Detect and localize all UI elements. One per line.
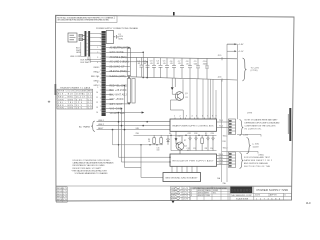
capacitor bank rails (sloped per scan skew) [106,57,237,80]
svg-text:LINE 2: LINE 2 [98,124,105,126]
svg-text:.05: .05 [163,63,167,65]
svg-text:TB2-4: TB2-4 [219,154,223,156]
svg-text:115VAC: 115VAC [76,93,86,96]
svg-text:LINE 1: LINE 1 [98,120,105,122]
AC plug P1 [68,33,85,42]
svg-text:60Hz: 60Hz [119,39,124,41]
svg-text:R10: R10 [223,141,226,143]
svg-text:NEUT: NEUT [98,128,104,130]
svg-text:C13: C13 [193,148,196,150]
signal label rows right of connector [110,46,129,114]
svg-text:14-16V: 14-16V [253,146,260,148]
svg-text:6-73: 6-73 [63,194,68,196]
svg-text:VOLTAGES MEASURED TO CHASSIS: VOLTAGES MEASURED TO CHASSIS [75,172,109,175]
svg-text:BLK - BLK: BLK - BLK [58,94,74,96]
svg-text:BRN - BRN: BRN - BRN [58,105,74,107]
brace to +15V label [242,58,246,81]
svg-text:3: 3 [97,57,98,59]
svg-text:VOLTAGE: VOLTAGE [76,90,87,93]
svg-text:J2-6: J2-6 [218,76,223,78]
svg-text:8: 8 [212,116,213,118]
right mid wires with labels [222,135,261,154]
svg-text:8: 8 [97,82,98,84]
svg-text:12.6: 12.6 [76,102,83,104]
svg-text:100: 100 [157,150,160,152]
terminal strip box (box3) [163,173,201,182]
svg-text:DEPENDING UPON LINE VOLTAGE AN: DEPENDING UPON LINE VOLTAGE AND [245,121,281,124]
svg-text:COMPONENTS IN THE CIRCUITS: COMPONENTS IN THE CIRCUITS [245,125,277,127]
company logo block [230,187,252,197]
diode CR7 on Q2 base [175,138,178,141]
svg-text:DRN: DRN [171,188,176,190]
svg-text:CR7: CR7 [178,136,181,138]
svg-text:RED-YEL: RED-YEL [91,76,101,78]
pin numbers above box1 [174,116,217,118]
fold mark left border [55,84,57,95]
svg-text:4-6-73: 4-6-73 [183,191,188,193]
svg-text:RED - RED: RED - RED [58,97,74,99]
svg-text:WIRE COLOR: WIRE COLOR [58,91,75,93]
svg-text:4-9-73: 4-9-73 [183,199,188,201]
svg-text:.05: .05 [178,63,182,65]
resistor R2 [153,135,156,144]
svg-text:(TYP): (TYP) [247,112,253,114]
svg-text:7: 7 [97,77,98,79]
sheet border frame [56,15,295,201]
svg-text:(GND): (GND) [259,154,265,156]
svg-text:ORN - ORN: ORN - ORN [58,108,74,110]
title block top line [56,185,292,187]
diodes row under box1 [189,135,215,150]
svg-text:SCALE NONE: SCALE NONE [236,197,249,200]
svg-text:J2-5: J2-5 [218,55,223,57]
svg-text:AC TRANS: AC TRANS [79,125,91,128]
wire 25B below box1 [113,130,217,151]
svg-text:TB2-3: TB2-3 [223,147,228,149]
diode CR6 [167,135,170,145]
svg-text:1: 1 [174,116,175,118]
svg-text:25B: 25B [136,133,140,135]
svg-text:CR2: CR2 [188,133,191,135]
registration mark left margin [48,101,50,103]
svg-text:6: 6 [202,116,203,118]
ticks box2 to box3 [172,166,197,172]
svg-text:IN QUESTION.: IN QUESTION. [245,128,262,130]
svg-text:0.3: 0.3 [88,108,92,110]
svg-text:POWER SUPPLY 7296: POWER SUPPLY 7296 [257,188,289,192]
capacitors C1-C10 between rails [137,57,210,79]
svg-text:STL: STL [213,193,216,195]
arrows +5V stubs [234,43,236,52]
svg-text:DATA SEE SHEET 2 OF 2: DATA SEE SHEET 2 OF 2 [244,159,273,162]
svg-text:25.2VAC CT: 25.2VAC CT [110,65,126,68]
svg-text:25A: 25A [223,182,227,185]
svg-text:TB2-7: TB2-7 [219,163,223,165]
svg-text:NEG GROUND JUNCTION ASSY: NEG GROUND JUNCTION ASSY [166,176,199,179]
vertical bus wires from connector area [119,52,171,177]
svg-text:1: 1 [97,47,98,49]
svg-text:409612: 409612 [198,195,204,197]
svg-text:R7: R7 [184,140,186,142]
svg-text:(+ 15V): (+ 15V) [253,144,260,146]
parts list table [190,187,230,201]
svg-text:25.2VAC (RED): 25.2VAC (RED) [110,70,127,73]
wires plug to transformer [79,36,85,57]
brace and note 1 [240,120,244,136]
svg-text:FOR VOLTAGE AND TEST: FOR VOLTAGE AND TEST [244,156,271,159]
svg-text:25.2 CT: 25.2 CT [76,97,86,99]
svg-text:11: 11 [96,97,98,99]
svg-text:UNLESS OTHERWISE SPECIFIED:: UNLESS OTHERWISE SPECIFIED: [73,160,111,162]
title text [230,187,291,201]
svg-text:1: 1 [114,17,116,20]
svg-text:1273686: 1273686 [256,199,283,201]
svg-text:REAR POWER SUPPLY CONTROL BOX: REAR POWER SUPPLY CONTROL BOX [173,124,215,127]
svg-text:1K: 1K [148,141,151,143]
svg-text:4-5-73: 4-5-73 [183,188,188,190]
bleeder resistor chain R2/R3 left of cap bank [127,48,135,104]
long verticals to title area [222,120,228,182]
notes block bottom-left [71,160,114,175]
svg-text:APP BY: APP BY [270,194,278,197]
svg-text:4-73: 4-73 [63,188,68,190]
svg-text:TB2-1: TB2-1 [223,136,228,138]
svg-text:5-73: 5-73 [63,191,68,193]
connector strip J1 [96,31,106,116]
svg-text:POWER SUPPLY CONNECTIONS ON BA: POWER SUPPLY CONNECTIONS ON BASE [96,27,139,30]
svg-text:LINE CORD: LINE CORD [70,56,81,58]
svg-text:3: 3 [191,195,192,197]
pin number ticks left of strip [100,34,102,110]
svg-text:Q1: Q1 [185,93,189,95]
svg-text:TB2-6: TB2-6 [219,160,223,162]
svg-text:4: 4 [192,116,193,118]
svg-text:RESISTORS ARE 1/2 WATT: RESISTORS ARE 1/2 WATT [73,167,103,170]
svg-text:+5.1V: +5.1V [238,51,244,53]
svg-text:.05: .05 [187,150,189,152]
fold mark bottom [172,201,175,204]
svg-text:CHK: CHK [171,191,176,193]
wires from connector rows [106,48,147,113]
svg-text:TRANSFORMER T1 DATA: TRANSFORMER T1 DATA [60,86,91,89]
svg-text:CR4: CR4 [211,133,214,135]
resistor R3 [160,135,163,144]
svg-text:R1: R1 [186,97,188,99]
transformer T1 windings [85,31,91,57]
regulator box (box2) [170,154,217,166]
svg-text:3: 3 [186,116,187,118]
svg-text:GRN - GRN: GRN - GRN [58,99,74,101]
revision table bottom-left [56,187,67,202]
svg-text:CR3: CR3 [194,133,197,135]
svg-text:.05: .05 [137,63,141,65]
svg-text:.05: .05 [150,63,154,65]
fold mark top [173,12,175,15]
svg-text:4-8-73: 4-8-73 [183,193,188,195]
svg-text:AC LINE 2 (BLK): AC LINE 2 (BLK) [110,61,129,64]
diode CR1 on Q1 base line [171,87,174,90]
svg-text:18 V: 18 V [76,108,83,110]
svg-text:(7-73V): (7-73V) [251,70,258,72]
svg-text:10: 10 [96,92,98,94]
svg-text:+5.8V: +5.8V [238,44,244,46]
junction dots on rows [118,47,148,114]
notes box top-left [56,16,117,23]
signature table [171,187,191,201]
svg-text:24A: 24A [217,177,221,180]
svg-text:5: 5 [97,67,98,69]
brace +15V mid [247,138,251,154]
svg-text:2: 2 [180,116,181,118]
svg-text:a-c: a-c [306,201,311,205]
svg-text:(+5V): (+5V) [244,134,249,136]
svg-text:GROUND WITH A VTVM UNLESS OTHE: GROUND WITH A VTVM UNLESS OTHERWISE SPEC… [57,19,109,22]
verticals from cap bank down to control box [190,79,222,152]
svg-text:13: 13 [96,107,98,109]
transistor Q2 [176,131,184,154]
svg-text:SEEBURG: SEEBURG [231,188,251,192]
svg-text:C14: C14 [210,148,213,150]
svg-text:T1-1: T1-1 [219,120,223,122]
svg-text:6: 6 [97,72,98,74]
svg-text:CAPACITANCE VALUES ARE IN MICR: CAPACITANCE VALUES ARE IN MICROFARADS [73,162,115,165]
svg-text:TB2-5: TB2-5 [219,157,223,159]
wires transformer to connector [88,34,101,62]
svg-text:YEL - YEL: YEL - YEL [58,102,74,104]
svg-text:35 V: 35 V [76,105,83,107]
svg-text:.05: .05 [186,63,190,65]
svg-text:AC NEUTRAL(WHT): AC NEUTRAL(WHT) [110,46,129,49]
svg-text:R5: R5 [205,133,207,135]
svg-text:12: 12 [96,102,98,104]
svg-text:6.3V: 6.3V [76,99,83,101]
svg-text:SECTION 7296 OF THE: SECTION 7296 OF THE [244,166,271,168]
box1 right stubs to terminal strip [217,119,236,135]
fold mark right border [289,108,291,141]
svg-text:500: 500 [194,63,198,65]
svg-text:BLK WHT-2: BLK WHT-2 [81,62,92,64]
control box (box1) [170,118,217,132]
svg-text:BLU-WHT ADJ: BLU-WHT ADJ [110,94,127,97]
svg-text:T1-2: T1-2 [219,126,223,128]
svg-text:14: 14 [96,112,98,114]
transistor Q1 [175,92,184,101]
svg-text:2000: 2000 [203,64,208,66]
svg-text:VIO-WHT SEN: VIO-WHT SEN [110,113,125,115]
left pin labels rows 5-9 [91,67,101,87]
svg-text:8-73: 8-73 [63,197,68,199]
box2 right stubs and terminal strip [217,152,236,168]
svg-text:2W: 2W [205,148,208,150]
svg-text:9: 9 [216,116,217,118]
svg-text:2: 2 [97,52,98,54]
svg-text:4-9-73: 4-9-73 [183,196,188,198]
svg-text:CONN: CONN [205,195,211,197]
svg-text:5: 5 [196,116,197,118]
svg-text:R6: R6 [169,133,171,135]
svg-text:.05: .05 [143,63,147,65]
svg-text:REGULATOR PWR SUPPLY ASSY: REGULATOR PWR SUPPLY ASSY [173,159,215,162]
transformer data table bottom-left [57,86,93,109]
svg-text:7: 7 [207,116,208,118]
svg-text:RESISTANCE VALUES IN OHMS: RESISTANCE VALUES IN OHMS [73,164,106,167]
box right of connector top (heater plug) [106,31,118,44]
right end pins of rails [222,44,237,120]
svg-text:.05: .05 [156,63,160,65]
svg-text:41273: 41273 [255,195,260,197]
svg-text:9: 9 [97,87,98,89]
svg-text:* THIS VALUE IS SELECTED AT FA: * THIS VALUE IS SELECTED AT FACTORY [71,169,108,172]
brace and note 2 [240,153,244,169]
svg-text:RES: RES [88,91,93,93]
capacitor labels [137,61,208,66]
svg-text:4: 4 [97,62,98,64]
node dots mid rails [118,135,207,146]
svg-text:.05: .05 [170,63,174,65]
svg-text:NOTE: VOLTAGES HERE MAY VARY: NOTE: VOLTAGES HERE MAY VARY [245,118,279,121]
svg-text:AND SERVICE MANUAL: AND SERVICE MANUAL [244,162,269,165]
svg-text:GRN: GRN [76,52,81,54]
